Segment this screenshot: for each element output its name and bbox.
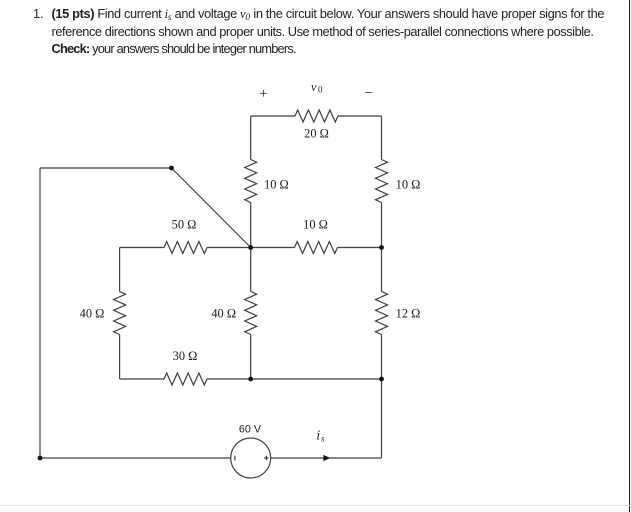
- svg-text:−: −: [364, 86, 372, 102]
- node dot right mid: [379, 245, 384, 250]
- node dot right bottom: [379, 377, 384, 382]
- svg-text:40 Ω: 40 Ω: [80, 307, 105, 321]
- resistor 12ohm: [376, 292, 388, 335]
- resistor 30ohm: [164, 373, 207, 385]
- arrow is: [323, 455, 330, 461]
- bottom faint line: [0, 505, 631, 506]
- wire left-top vertical upper lead: [250, 116, 252, 160]
- node dot center: [248, 245, 253, 250]
- node dot center bottom: [248, 377, 253, 382]
- wire right vertical bottom: [381, 379, 383, 458]
- wire source rail left: [40, 457, 231, 459]
- svg-text:i: i: [316, 428, 320, 443]
- svg-text:12 Ω: 12 Ω: [396, 307, 421, 321]
- wire right vertical mid lower lead: [381, 335, 383, 380]
- wire top rail left lead: [251, 115, 295, 117]
- wire left loop vertical upper lead: [119, 248, 121, 292]
- source minus mark: [234, 456, 236, 461]
- svg-text:10 Ω: 10 Ω: [303, 218, 328, 232]
- svg-text:0: 0: [318, 85, 323, 95]
- svg-text:30 Ω: 30 Ω: [173, 349, 198, 363]
- wire top-left horizontal: [40, 167, 172, 169]
- wire bottom rail right: [207, 378, 382, 380]
- svg-text:10 Ω: 10 Ω: [264, 178, 289, 192]
- resistor 50ohm: [164, 242, 207, 254]
- svg-text:s: s: [321, 433, 325, 443]
- wire mid rail right lead: [338, 247, 382, 249]
- node dot diagonal top: [169, 166, 174, 171]
- wire bottom rail left lead: [120, 378, 164, 380]
- wire center vertical upper lead: [250, 248, 252, 292]
- resistor 10ohm left vertical: [245, 160, 257, 203]
- svg-text:60 V: 60 V: [239, 424, 262, 436]
- svg-text:40 Ω: 40 Ω: [211, 307, 236, 321]
- wire left loop vertical lower lead: [119, 335, 121, 380]
- wire right vertical upper lead: [381, 116, 383, 160]
- right border line: [629, 0, 630, 512]
- svg-text:20 Ω: 20 Ω: [304, 127, 329, 141]
- wire left-top vertical lower lead: [250, 203, 252, 248]
- resistor 10ohm horizontal: [295, 242, 338, 254]
- svg-text:50 Ω: 50 Ω: [172, 218, 197, 232]
- wire center vertical lower lead: [250, 335, 252, 380]
- wire right vertical to mid node: [381, 203, 383, 248]
- svg-text:+: +: [259, 86, 267, 102]
- wire mid rail to center node: [207, 247, 251, 249]
- wire top rail right lead: [338, 115, 382, 117]
- voltage source 60V circle: [231, 438, 271, 478]
- source plus mark: [264, 457, 268, 459]
- wire source rail right: [271, 457, 382, 459]
- resistor 40ohm left: [114, 292, 126, 335]
- resistor 20ohm: [295, 110, 338, 122]
- wire right vertical mid upper lead: [381, 248, 383, 292]
- wire mid rail center lead: [251, 247, 295, 249]
- svg-text:v: v: [311, 80, 317, 94]
- resistor 40ohm middle: [245, 292, 257, 335]
- svg-text:10 Ω: 10 Ω: [396, 178, 421, 192]
- node dot source left: [38, 456, 43, 461]
- wire diagonal: [172, 168, 251, 248]
- wire far-left vertical: [39, 168, 41, 458]
- resistor 10ohm right vertical: [376, 160, 388, 203]
- wire mid rail left lead: [120, 247, 164, 249]
